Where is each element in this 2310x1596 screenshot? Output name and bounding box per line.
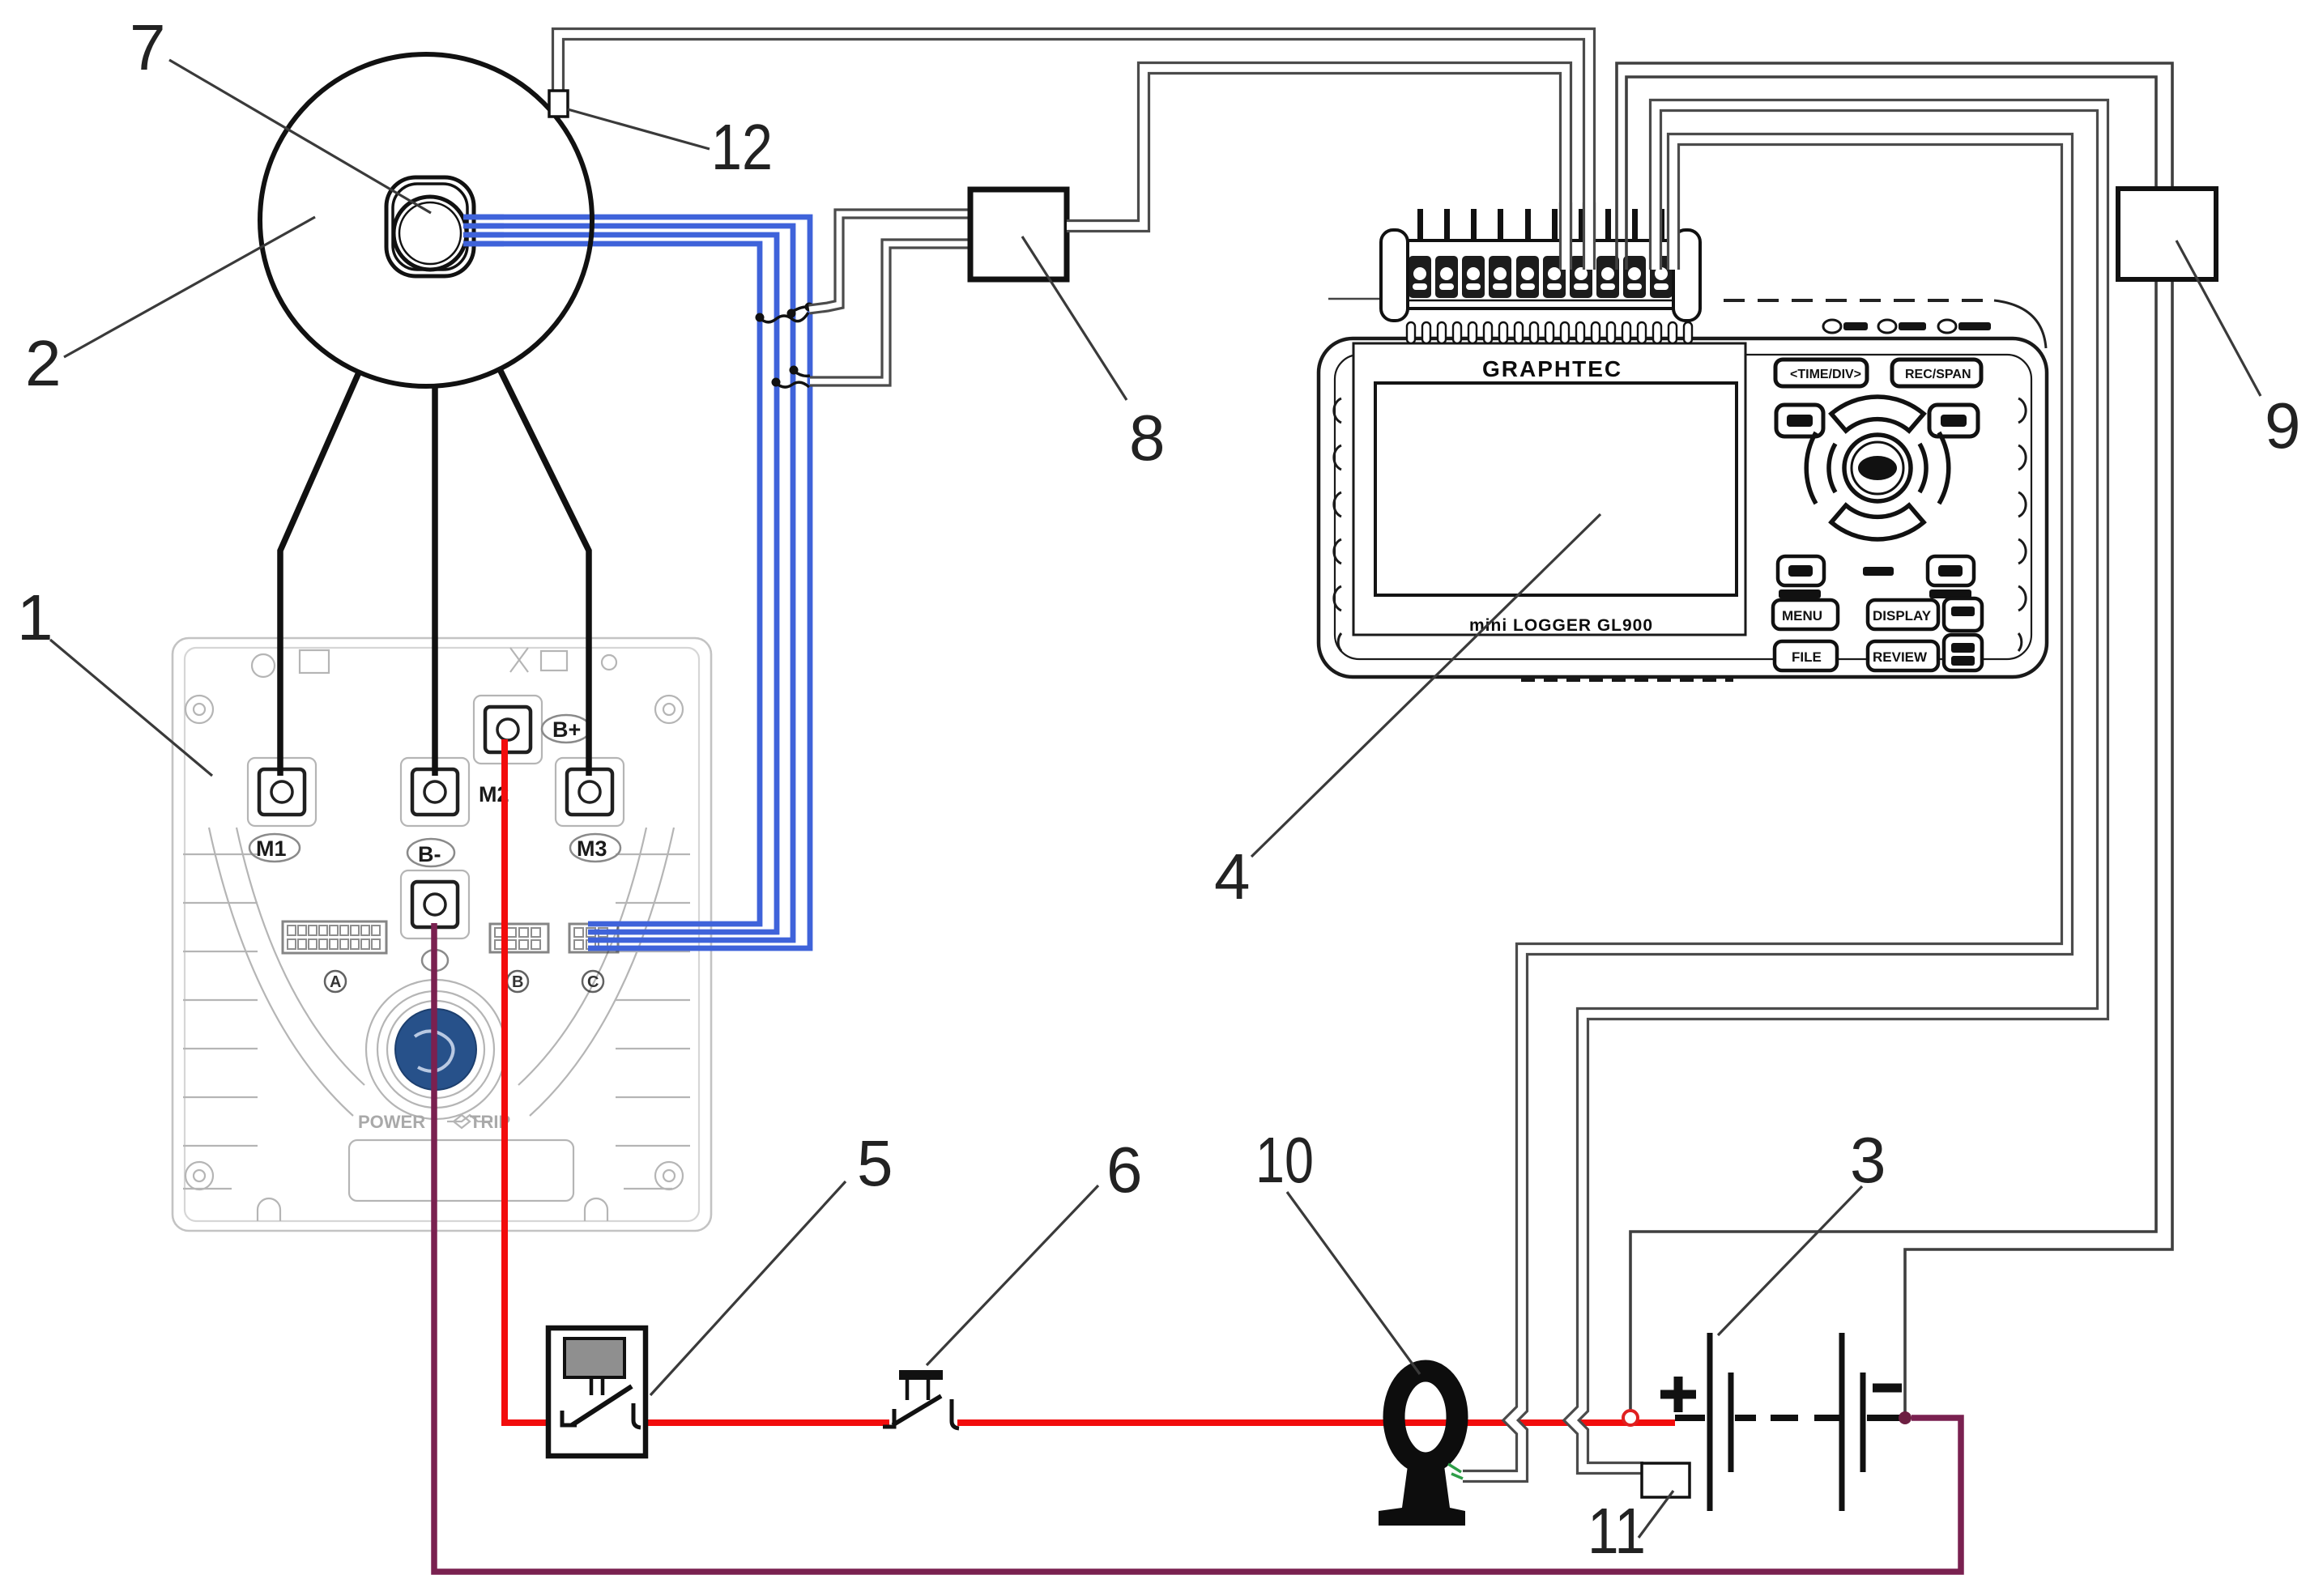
- button CH left: [1776, 405, 1823, 436]
- motor controller U1 body: [173, 638, 711, 1231]
- switch 5 box: [548, 1328, 646, 1456]
- battery cell2 long plate: [1839, 1333, 1845, 1511]
- controller decorative curves: [209, 828, 353, 1116]
- push button 6 right contact: [952, 1399, 959, 1428]
- connector block C: [569, 924, 618, 952]
- navigation pad: [1806, 397, 1949, 539]
- svg-text:POWER: POWER: [358, 1112, 425, 1132]
- battery plus sign: [1660, 1377, 1696, 1412]
- keypad small labels: [1779, 589, 1821, 598]
- svg-text:1: 1: [17, 581, 53, 653]
- svg-text:A: A: [330, 973, 341, 991]
- cable pair logger to current transducer: [1463, 139, 2067, 1476]
- switch 5 plunger: [591, 1377, 603, 1395]
- wire motor phase leg M1: [280, 372, 359, 776]
- battery dashes: [1771, 1415, 1840, 1421]
- button REVIEW: [1868, 641, 1938, 670]
- button RECORD: [1892, 360, 1981, 386]
- red power wire from B+ to switch: [505, 739, 570, 1423]
- red power wire push button to battery: [957, 1419, 1675, 1426]
- wire stub cable box8 into terminal: [1559, 202, 1572, 270]
- red power wire switch to push button: [632, 1419, 889, 1426]
- transducer output leads: [1448, 1464, 1463, 1479]
- svg-text:5: 5: [857, 1127, 893, 1199]
- svg-text:MENU: MENU: [1782, 608, 1822, 624]
- blue phase-sensor wire 3: [458, 235, 777, 932]
- data logger body: [1319, 338, 2047, 677]
- svg-text:6: 6: [1106, 1134, 1143, 1206]
- box 8: [970, 189, 1067, 279]
- connector block B: [490, 924, 548, 952]
- blue wires hub stubs: [463, 217, 504, 244]
- svg-text:GRAPHTEC: GRAPHTEC: [1482, 356, 1622, 381]
- svg-text:C: C: [587, 973, 599, 991]
- battery cell1 short plate: [1728, 1373, 1734, 1472]
- screen display area: [1375, 383, 1737, 595]
- terminal block bar: [1406, 240, 1675, 309]
- box 9: [2118, 189, 2216, 279]
- transducer bracket: [1379, 1466, 1465, 1526]
- terminal B+: [474, 696, 542, 764]
- battery cell2 stub to minus node: [1867, 1415, 1902, 1421]
- svg-text:9: 9: [2265, 389, 2301, 462]
- button FILE: [1775, 641, 1837, 670]
- switch 5 blade: [572, 1386, 632, 1425]
- button DISPLAY: [1868, 600, 1938, 629]
- svg-text:8: 8: [1129, 402, 1166, 474]
- battery plus stub: [1675, 1415, 1705, 1421]
- label 1 leader: [50, 640, 212, 776]
- label 8 leader: [1022, 236, 1127, 400]
- svg-text:FILE: FILE: [1792, 649, 1822, 665]
- svg-text:12: 12: [711, 111, 773, 183]
- controller bottom panel: [349, 1140, 573, 1201]
- sensor connector 12: [549, 91, 568, 117]
- cable pair logger to shunt component 11: [1571, 105, 2103, 1468]
- push button 6 blade: [893, 1396, 941, 1425]
- button fast-left: [1778, 556, 1824, 585]
- cable pair box8 to logger terminal: [1067, 68, 1566, 243]
- button START/STOP stack: [1944, 598, 1982, 631]
- current transducer 10 ring: [1394, 1371, 1457, 1463]
- label 4 leader: [1251, 514, 1600, 857]
- indicator LEDs: [1823, 320, 1956, 333]
- svg-text:B+: B+: [552, 717, 581, 742]
- label 3 leader: [1718, 1186, 1862, 1335]
- wire motor phase leg M3: [500, 369, 589, 776]
- push button 6 stems: [907, 1380, 928, 1400]
- junction dots upper: [756, 313, 765, 322]
- blue phase-sensor wire 2: [458, 226, 793, 940]
- svg-text:4: 4: [1214, 841, 1251, 913]
- controller top edge details: [252, 654, 275, 677]
- button fast-right: [1928, 556, 1974, 585]
- maroon return wire B- to battery minus: [434, 923, 1961, 1572]
- terminal block end caps: [1381, 230, 1408, 321]
- battery cell2 short plate: [1860, 1373, 1866, 1472]
- terminal B-: [401, 870, 469, 938]
- terminal M3: [556, 758, 624, 826]
- wire battery minus sense to logger via box9: [1617, 63, 2172, 1415]
- label 10 leader: [1287, 1192, 1420, 1374]
- label 9 leader: [2176, 240, 2261, 396]
- battery cell1 inner stub: [1735, 1415, 1756, 1421]
- logger top dashed cover line: [1724, 299, 1994, 302]
- button MENU: [1773, 600, 1838, 629]
- battery cell1 long plate: [1707, 1333, 1713, 1511]
- switch 5 left contact: [562, 1411, 577, 1425]
- blue phase-sensor wire 1: [458, 217, 810, 948]
- svg-text:B-: B-: [418, 842, 441, 866]
- node battery minus: [1899, 1411, 1912, 1424]
- controller corner screws: [185, 696, 213, 723]
- logger bottom dashes: [1521, 677, 1733, 682]
- controller logo blue disc: [395, 1009, 476, 1090]
- cable pair to box8 upper: [809, 214, 970, 309]
- motor M body circle: [260, 54, 592, 386]
- svg-text:<TIME/DIV>: <TIME/DIV>: [1790, 368, 1861, 381]
- controller heatsink fins right: [616, 854, 690, 1189]
- terminal label ovals: [249, 715, 620, 971]
- blue phase-sensor wire 4: [458, 244, 760, 924]
- push button 6 left contact: [883, 1409, 894, 1427]
- shunt component 11: [1642, 1463, 1690, 1497]
- push button 6 cap: [899, 1370, 943, 1380]
- logger right edge clips: [2018, 398, 2026, 651]
- label 11 leader: [1639, 1491, 1673, 1538]
- wire motor phase leg M2: [432, 385, 438, 776]
- screen bezel panel: [1353, 343, 1745, 635]
- svg-text:3: 3: [1850, 1124, 1886, 1196]
- svg-text:REVIEW: REVIEW: [1873, 649, 1928, 665]
- cable pair sensor to logger terminal: [558, 34, 1589, 243]
- label 7 leader: [169, 60, 431, 213]
- junction tap squiggle lower: [794, 371, 810, 376]
- svg-text:DISPLAY: DISPLAY: [1873, 608, 1932, 624]
- button TIME/DIV: [1775, 360, 1867, 386]
- hub outer ring: [386, 177, 474, 276]
- wire stub sensor cable into terminal: [1583, 202, 1596, 270]
- terminal M1: [248, 758, 316, 826]
- label 5 leader: [650, 1181, 846, 1395]
- logger left edge clips: [1334, 398, 1341, 651]
- svg-text:M1: M1: [256, 836, 287, 861]
- wire battery plus sense to logger via box9: [1626, 77, 2156, 1415]
- terminal screw cups: [1409, 256, 1673, 298]
- terminal block vent slots: [1407, 322, 1692, 343]
- svg-text:10: 10: [1255, 1124, 1314, 1196]
- block labels A B C: [330, 973, 599, 991]
- cable pair to box8 lower: [810, 244, 970, 381]
- connector block A: [283, 921, 386, 953]
- controller bottom notches: [258, 1198, 280, 1221]
- switch 5 right contact: [633, 1403, 641, 1428]
- junction tap squiggle upper: [760, 313, 808, 322]
- junction dots lower: [790, 366, 799, 375]
- svg-text:11: 11: [1588, 1495, 1646, 1567]
- svg-text:B: B: [512, 973, 523, 991]
- svg-text:2: 2: [25, 327, 62, 399]
- label 12 leader: [568, 109, 710, 149]
- hub inner circle: [394, 197, 467, 270]
- label 6 leader: [927, 1185, 1098, 1365]
- button CH right: [1929, 405, 1978, 436]
- label 2 leader: [64, 217, 315, 357]
- terminal block pins: [1417, 209, 1664, 246]
- controller logo rings: [366, 980, 505, 1119]
- svg-text:M3: M3: [577, 836, 607, 861]
- switch 5 coil block: [565, 1339, 624, 1377]
- svg-text:mini LOGGER GL900: mini LOGGER GL900: [1469, 616, 1653, 635]
- battery minus sign: [1873, 1384, 1902, 1393]
- controller heatsink fins left: [183, 854, 258, 1189]
- terminal M2: [401, 758, 469, 826]
- svg-text:7: 7: [130, 11, 166, 83]
- svg-text:REC/SPAN: REC/SPAN: [1905, 368, 1971, 381]
- node battery plus: [1623, 1411, 1638, 1425]
